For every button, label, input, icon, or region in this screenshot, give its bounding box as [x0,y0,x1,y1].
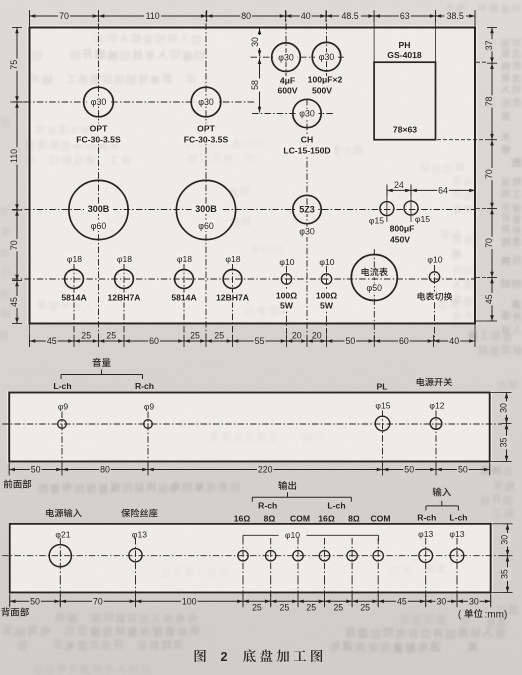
hole output terminal COM L phi10 [373,551,383,561]
svg-text:16Ω: 16Ω [318,513,335,523]
dimension back panel right 30/35 [492,524,513,593]
svg-text:30: 30 [469,596,479,606]
label back panel name [1,607,29,616]
svg-text:25: 25 [214,331,224,341]
svg-text:20: 20 [312,331,322,341]
wire vertical centerline choke/5Z3 column [306,99,308,341]
hole filter capacitor 800uF 450V phi15 left [369,202,394,226]
dimension front panel right 30/35 [491,393,512,462]
wire vertical centerline 12BH7A column 2 [232,264,234,341]
svg-text:100Ω: 100Ω [316,291,337,301]
caption figure 2 chassis machining drawing [195,649,323,664]
svg-text:φ60: φ60 [198,221,214,231]
wire front panel horizontal centerline [2,423,502,425]
svg-text:110: 110 [9,149,19,163]
svg-text:φ50: φ50 [367,283,383,293]
svg-text:70: 70 [484,169,494,179]
svg-text:φ30: φ30 [91,97,107,107]
wire horizontal centerline capacitor row [251,56,346,58]
svg-text:100: 100 [182,596,197,606]
svg-text:35: 35 [499,438,509,448]
svg-text:φ60: φ60 [91,221,107,231]
wire horizontal centerline OPT row [12,101,256,103]
wire vertical centerline power switch [435,411,437,449]
svg-text:φ30: φ30 [198,97,214,107]
svg-text:φ13: φ13 [418,529,433,539]
label output terminals 16/8/COM [234,513,391,523]
svg-text:FC-30-3.5S: FC-30-3.5S [76,134,121,144]
svg-text:55: 55 [255,336,265,346]
hole output terminal COM R phi10 [293,551,303,561]
wire vertical centerline OPT2/300B column [205,11,207,341]
wire vertical centerline 5814A column 2 [183,264,185,341]
svg-text:8Ω: 8Ω [348,513,360,523]
svg-text:100μF×2: 100μF×2 [308,74,343,84]
svg-text:2: 2 [220,650,227,664]
hole 5814A tube 2 phi18 [170,254,198,303]
svg-text:45: 45 [9,297,19,307]
svg-text:300B: 300B [88,204,110,214]
svg-text:75: 75 [9,60,19,70]
cutout PH power transformer GS-4018 78x63 [374,40,435,140]
svg-text:φ10: φ10 [279,257,294,267]
svg-text:50: 50 [30,596,40,606]
dimension 24/64 filter capacitors [387,180,475,222]
back panel outline [10,524,491,593]
hole output terminal 8ohm R phi10 [266,551,276,561]
hole 12BH7A tube 2 phi18 [216,254,250,303]
svg-text:800μF: 800μF [390,223,415,233]
svg-text:φ15: φ15 [369,215,384,225]
svg-text:64: 64 [438,186,448,196]
svg-text:80: 80 [241,11,251,21]
svg-text:12BH7A: 12BH7A [108,293,141,303]
wire vertical centerline OPT1/300B column [98,11,100,341]
svg-text:φ10: φ10 [319,257,334,267]
svg-text:φ18: φ18 [225,254,240,264]
svg-text:φ12: φ12 [429,401,444,411]
svg-text:25: 25 [190,331,200,341]
hole output terminal 16ohm R phi10 [238,551,248,561]
hole output terminal 8ohm L phi10 [347,551,357,561]
svg-text:80: 80 [100,465,110,475]
svg-text:500V: 500V [312,85,332,95]
hole filter capacitor 800uF 450V phi15 right [390,201,431,244]
label fuse holder [121,509,157,518]
svg-text:60: 60 [399,336,409,346]
hole 300B tube 2 phi60 [176,180,235,239]
svg-text:12BH7A: 12BH7A [216,293,249,303]
svg-text:CH: CH [301,135,313,145]
hole meter switch phi10 [416,255,453,302]
svg-text:25: 25 [252,603,262,613]
svg-text:110: 110 [146,11,160,21]
svg-text:25: 25 [306,603,316,613]
dimension top edge 70/110/80/40/48.5/63/38.5 [30,10,476,62]
svg-text:φ30: φ30 [319,52,335,62]
dimension phi10 bracket outputs [243,530,379,541]
svg-text:φ15: φ15 [375,401,390,411]
svg-text:50: 50 [458,465,468,475]
hole 300B tube 1 phi60 [69,180,128,239]
svg-text:φ30: φ30 [299,227,315,237]
svg-text:25: 25 [280,603,290,613]
svg-text:φ9: φ9 [144,402,155,412]
svg-text:5Z3: 5Z3 [299,205,315,215]
dimension bottom edge 45/25/25/60/25/25/55/20/20/50/60/40 [30,325,476,348]
svg-text:48.5: 48.5 [342,11,359,21]
svg-text:220: 220 [258,465,273,475]
wire horizontal centerline 300B row [12,209,475,211]
svg-text:60: 60 [149,336,159,346]
svg-text:φ9: φ9 [58,402,69,412]
svg-text:φ30: φ30 [278,52,294,62]
svg-text:25: 25 [333,603,343,613]
svg-text:4μF: 4μF [280,76,295,86]
hole fuse holder phi13 [129,530,147,562]
svg-text:φ30: φ30 [299,109,315,119]
svg-text:78: 78 [484,96,494,106]
svg-text:COM: COM [370,513,390,523]
svg-text:FC-30-3.5S: FC-30-3.5S [184,134,229,144]
svg-text:L-ch: L-ch [327,500,345,510]
svg-text:45: 45 [484,294,494,304]
svg-text:R-ch: R-ch [417,513,436,523]
label power input [46,509,81,518]
hole resistor 100ohm 5W 2 phi10 [315,257,338,311]
svg-text:16Ω: 16Ω [234,513,251,523]
svg-text:30: 30 [437,596,447,606]
svg-text:100Ω: 100Ω [276,291,297,301]
wire vertical centerline volume R-ch [147,412,149,449]
svg-text:35: 35 [500,569,510,579]
svg-text:70: 70 [484,238,494,248]
svg-text:φ10: φ10 [285,530,300,540]
svg-text::mm): :mm) [485,609,508,620]
wire vertical centerline capacitor 1 column [285,11,287,76]
dimension front panel 50/80/220/50/50 [9,448,490,476]
hole output terminal 16ohm L phi10 [319,551,329,561]
svg-text:25: 25 [360,603,370,613]
wire back panel vertical centerlines [60,538,457,578]
svg-text:38.5: 38.5 [447,11,464,21]
wire vertical centerline resistor 2 column [326,266,328,341]
svg-text:5814A: 5814A [61,293,86,303]
hole power input phi21 [49,530,71,567]
svg-text:φ18: φ18 [177,254,192,264]
svg-text:25: 25 [106,331,116,341]
hole pilot lamp PL phi15 [375,382,391,431]
wire vertical centerline 5814A column 1 [73,264,75,341]
wire horizontal centerline choke row [252,113,333,115]
svg-text:450V: 450V [390,234,410,244]
dimension back panel 50/70/100/25x5/45/30/30 [10,578,491,613]
wire vertical centerline pilot lamp [382,411,384,449]
svg-text:5W: 5W [320,301,334,311]
svg-text:φ13: φ13 [449,529,464,539]
svg-text:φ13: φ13 [132,530,147,540]
svg-text:50: 50 [31,465,41,475]
svg-text:50: 50 [346,336,356,346]
hole choke CH LC-15-150D phi30 [280,99,335,155]
svg-text:45: 45 [47,336,57,346]
svg-text:600V: 600V [277,86,297,96]
hole 12BH7A tube 1 phi18 [107,254,141,303]
svg-text:φ18: φ18 [117,254,132,264]
wire horizontal centerline small-tube row [12,278,475,280]
hole input L-ch phi13 [449,529,464,563]
svg-text:70: 70 [59,11,69,21]
svg-text:37: 37 [484,40,494,50]
label input bracket [417,487,467,522]
dimension 58 capacitor-row-to-choke-row [250,58,262,112]
svg-text:5W: 5W [280,301,294,311]
wire back panel horizontal centerline [2,555,503,557]
svg-text:24: 24 [394,180,404,190]
svg-text:L-ch: L-ch [53,381,71,391]
wire vertical centerline meter column [373,249,375,341]
label volume bracket [53,358,154,391]
svg-text:φ18: φ18 [67,254,82,264]
svg-text:LC-15-150D: LC-15-150D [283,145,330,155]
svg-text:30: 30 [500,535,510,545]
svg-text:COM: COM [290,513,310,523]
svg-text:φ10: φ10 [427,255,442,265]
wire vertical centerline 12BH7A column 1 [123,264,125,341]
svg-text:R-ch: R-ch [258,500,277,510]
svg-text:GS-4018: GS-4018 [387,50,422,60]
svg-text:70: 70 [9,240,19,250]
label front panel name [4,479,32,488]
svg-text:300B: 300B [195,204,217,214]
svg-text:40: 40 [301,11,311,21]
hole resistor 100ohm 5W 1 phi10 [275,257,298,311]
svg-text:R-ch: R-ch [135,381,154,391]
hole volume L-ch phi9 [58,402,69,429]
front panel outline [9,393,490,462]
hole capacitor 100uFx2 500V phi30 [308,42,343,95]
svg-text:φ21: φ21 [55,530,70,540]
label units mm [458,609,507,620]
svg-text:PH: PH [399,40,411,50]
hole current meter phi50 [351,255,397,301]
wire vertical centerline capacitor 2 column [326,11,328,76]
dimension 30 top-to-capacitor-row [250,29,262,57]
svg-text:40: 40 [449,336,459,346]
hole OPT1 output transformer phi30 [71,87,126,144]
hole input R-ch phi13 [418,529,433,563]
hole capacitor 4uF 600V phi30 [272,43,301,96]
wire vertical centerline resistor 1 column [286,266,288,341]
label output bracket [252,481,351,510]
dimension right edge 37/78/70/70/45 [437,28,497,322]
hole 5814A tube 1 phi18 [60,254,88,303]
svg-text:PL: PL [377,382,388,392]
svg-text:φ15: φ15 [415,214,430,224]
chassis top view outline 450x300 [30,28,476,324]
svg-text:OPT: OPT [90,123,108,133]
hole OPT2 output transformer phi30 [179,87,234,144]
svg-text:70: 70 [93,596,103,606]
svg-text:OPT: OPT [197,123,215,133]
svg-text:50: 50 [404,465,414,475]
hole power switch phi12 [417,378,452,430]
svg-text:63: 63 [400,11,410,21]
wire vertical centerline volume L-ch [61,412,63,449]
hole 5Z3 rectifier phi30 [293,195,321,237]
svg-text:25: 25 [81,331,91,341]
hole volume R-ch phi9 [144,402,155,429]
svg-text:30: 30 [499,403,509,413]
svg-text:58: 58 [250,80,260,90]
dimension left edge 75/110/70/45 [9,28,29,324]
svg-text:45: 45 [397,596,407,606]
svg-text:8Ω: 8Ω [264,513,276,523]
svg-text:5814A: 5814A [171,293,196,303]
svg-text:L-ch: L-ch [449,513,467,523]
svg-text:20: 20 [292,331,302,341]
svg-text:30: 30 [250,37,260,47]
wire vertical centerline meter-switch column [434,265,436,341]
svg-text:78×63: 78×63 [393,125,417,135]
